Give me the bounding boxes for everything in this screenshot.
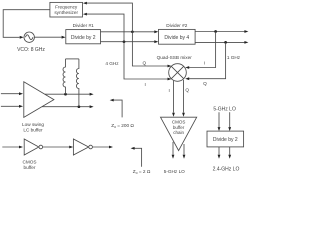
- svg-text:Low swing: Low swing: [22, 122, 44, 127]
- node: junction under inductor L1: [64, 93, 67, 96]
- node: junction on lower 4-GHz line: [123, 40, 126, 43]
- frequency synthesizer box U1: [50, 2, 83, 17]
- svg-text:1 GHz: 1 GHz: [227, 55, 241, 60]
- svg-text:CMOS: CMOS: [172, 119, 186, 124]
- op-amp A1 low swing LC buffer: [24, 82, 54, 118]
- wire: 2-ohm return arrow: [131, 147, 142, 167]
- wire: synthesizer output to VCO control: [3, 10, 50, 39]
- wire: divide-by-2 left output: [218, 147, 221, 159]
- wire: supply rail between inductors: [66, 58, 79, 60]
- svg-text:Divider #2: Divider #2: [166, 23, 187, 28]
- svg-text:Frequency: Frequency: [55, 4, 78, 9]
- divide-by-2 box U6: [207, 131, 244, 147]
- wire: 1-GHz I to mixer right upper input: [185, 32, 215, 69]
- node: junction under inductor L2: [78, 105, 81, 108]
- svg-text:LC buffer: LC buffer: [23, 127, 43, 132]
- wire: 4-GHz Q to mixer left upper input: [132, 32, 171, 68]
- svg-text:5-GHz LO: 5-GHz LO: [164, 169, 185, 174]
- wire: inverter U4 to inverter U5: [43, 146, 74, 149]
- inductor L1: [63, 59, 66, 94]
- wire: 5-GHz LO right input to divide-by-2: [228, 112, 231, 131]
- wire: mixer Q output down to buffer chain: [182, 80, 185, 117]
- svg-text:I: I: [145, 82, 146, 87]
- svg-text:Q: Q: [185, 87, 189, 92]
- inverter U4 CMOS buffer: [24, 139, 42, 155]
- wire: 4-GHz I to mixer left lower input: [124, 42, 172, 81]
- svg-text:buffer: buffer: [24, 165, 36, 170]
- wire: divider #2 upper output 1-GHz I: [195, 30, 248, 33]
- CMOS buffer chain U3: [161, 117, 197, 150]
- svg-text:synthesizer: synthesizer: [54, 10, 78, 15]
- svg-text:I: I: [169, 88, 170, 93]
- node: junction on 1-GHz I line: [214, 30, 217, 33]
- wire: feedback upper line to synthesizer: [83, 2, 132, 32]
- wire: 200-ohm return arrow: [110, 99, 122, 118]
- wire: buffer chain left output: [172, 142, 175, 159]
- svg-text:Quad-SSB mixer: Quad-SSB mixer: [157, 55, 193, 60]
- wire: 5-GHz LO left input to divide-by-2: [218, 112, 221, 131]
- inverter U5: [73, 139, 92, 155]
- wire: amp upper input: [1, 92, 23, 95]
- node: junction on 1-GHz Q line: [224, 41, 227, 44]
- svg-text:5-GHz LO: 5-GHz LO: [213, 107, 236, 113]
- svg-text:buffer: buffer: [173, 125, 185, 130]
- divider #2 box: [159, 29, 196, 44]
- wire: divider #1 upper output to divider #2: [101, 30, 159, 33]
- svg-text:CMOS: CMOS: [22, 160, 36, 165]
- wire: inverter U5 output: [92, 146, 113, 149]
- wire: divider #2 lower output 1-GHz Q: [195, 41, 248, 44]
- svg-text:Divide by 2: Divide by 2: [213, 137, 238, 143]
- wire: buffer chain right output: [183, 144, 186, 159]
- svg-text:2.4-GHz LO: 2.4-GHz LO: [213, 167, 240, 173]
- svg-text:4 GHz: 4 GHz: [105, 61, 119, 66]
- inductor L2: [76, 59, 79, 107]
- VCO oscillator symbol: [24, 32, 34, 42]
- wire: divide-by-2 right output: [228, 147, 231, 159]
- node: junction on upper 4-GHz line: [131, 30, 134, 33]
- label CMOS buffer: [22, 160, 36, 171]
- svg-text:Zo = 2 Ω: Zo = 2 Ω: [133, 169, 151, 175]
- wire: amp lower input: [1, 105, 23, 108]
- wire: divider #1 lower output to divider #2: [101, 40, 159, 43]
- svg-text:Divide by 2: Divide by 2: [71, 35, 96, 41]
- svg-text:Q: Q: [142, 61, 146, 66]
- svg-text:Zo = 200 Ω: Zo = 200 Ω: [111, 123, 134, 129]
- svg-text:I: I: [204, 61, 205, 66]
- wire: input to CMOS buffer: [2, 146, 23, 149]
- wire: amp upper output 200-ohm line: [45, 93, 94, 96]
- wire: VCO output to divider #1: [34, 36, 65, 39]
- svg-text:Divider #1: Divider #1: [73, 23, 94, 28]
- label low swing LC buffer: [22, 122, 44, 133]
- wire: mixer I output down to buffer chain: [172, 81, 175, 117]
- wire: feedback lower line to synthesizer: [83, 13, 124, 42]
- svg-text:Q: Q: [203, 81, 207, 86]
- divider #1 box: [66, 30, 101, 44]
- wire: amp lower output 200-ohm line: [42, 105, 94, 108]
- svg-text:Divide by 4: Divide by 4: [164, 35, 189, 41]
- svg-text:chain: chain: [173, 130, 184, 135]
- svg-text:VCO: 8 GHz: VCO: 8 GHz: [17, 47, 45, 53]
- wire: 1-GHz Q to mixer right lower input: [185, 42, 225, 80]
- mixer U2 quad-SSB mixer: [169, 64, 187, 82]
